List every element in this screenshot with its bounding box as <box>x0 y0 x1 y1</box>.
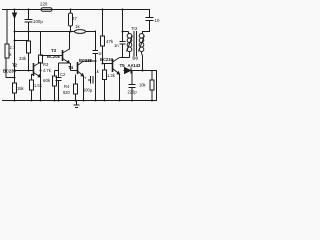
svg-text:820: 820 <box>63 90 71 95</box>
capacitor 220p <box>129 71 136 101</box>
wire antenna column <box>14 10 16 42</box>
resistor 1.5k column <box>31 74 33 100</box>
wire detector line <box>124 70 158 72</box>
svg-text:33k: 33k <box>19 56 27 61</box>
svg-text:Tr2: Tr2 <box>131 26 138 31</box>
svg-text:220p: 220p <box>128 90 138 95</box>
wire T3 emitter column + capacitor C2 <box>59 63 70 100</box>
wire primary top <box>123 32 129 35</box>
svg-text:100μ: 100μ <box>83 88 93 93</box>
wire collector to primary bottom <box>120 53 130 58</box>
wire 60k top tie <box>55 70 59 72</box>
svg-text:AA143: AA143 <box>128 63 141 68</box>
transformer winding slash left <box>127 36 133 52</box>
transistor T3 <box>62 50 64 61</box>
wire T5 collector column + capacitor 1n <box>120 10 126 59</box>
resistor 60k column <box>54 71 56 101</box>
svg-text:15k: 15k <box>17 86 25 91</box>
capacitor C5 top right <box>146 18 154 32</box>
wire secondary top <box>143 32 151 35</box>
svg-text:T5: T5 <box>120 63 126 68</box>
wire right corner down to C5 <box>149 10 151 18</box>
wire mid bus <box>14 31 95 33</box>
resistor 47k <box>101 36 105 46</box>
capacitor C4 electrolytic 100u <box>88 61 96 100</box>
svg-text:BC239: BC239 <box>3 69 16 74</box>
wire tap stub <box>15 40 30 42</box>
svg-text:220: 220 <box>40 2 48 7</box>
wire T2 collector column / R3 <box>40 32 42 101</box>
svg-text:BC234: BC234 <box>100 57 113 62</box>
wire T4 emitter column <box>83 76 85 100</box>
resistor R1 220 on rail <box>41 8 52 12</box>
junction dots <box>14 9 154 102</box>
wire T2 base <box>15 70 34 72</box>
wire right edge column <box>156 71 158 101</box>
transformer winding slash right <box>139 36 145 52</box>
wire top supply rail <box>2 9 150 11</box>
diode D1 AA143 <box>125 68 132 74</box>
wire secondary bottom column <box>142 53 143 71</box>
svg-text:4.7k: 4.7k <box>43 68 52 73</box>
svg-text:10k: 10k <box>139 83 147 88</box>
arrow on antenna wire <box>13 13 17 18</box>
svg-text:1.3k: 1.3k <box>107 73 116 78</box>
svg-text:1n: 1n <box>114 43 119 48</box>
transformer Tr2 primary winding <box>127 34 132 39</box>
wire T5 emitter column <box>119 74 121 100</box>
svg-text:47: 47 <box>72 16 77 21</box>
resistor 10k right <box>151 71 153 101</box>
svg-text:2.7: 2.7 <box>10 45 16 50</box>
resistor 15k left column <box>13 83 17 93</box>
resistor R4 820 <box>75 75 77 101</box>
resistor 1k bias <box>104 64 106 101</box>
svg-text:100μ: 100μ <box>33 19 43 24</box>
wire left resistor column <box>6 10 14 79</box>
transistor T4 <box>77 62 79 74</box>
svg-text:C2: C2 <box>60 72 66 77</box>
svg-text:1.5k: 1.5k <box>34 83 43 88</box>
svg-text:10: 10 <box>155 18 160 23</box>
wire T4 base tie <box>71 63 78 71</box>
svg-text:1k: 1k <box>75 24 80 29</box>
transistor T5 <box>112 59 114 72</box>
svg-text:T3: T3 <box>51 48 57 53</box>
resistor 33k divider <box>28 32 30 71</box>
svg-text:R4: R4 <box>64 84 70 89</box>
wire bottom ground rail <box>2 100 157 102</box>
svg-text:+: + <box>84 76 87 81</box>
resistor 1k ellipse on bus <box>75 30 86 34</box>
svg-text:60k: 60k <box>43 78 51 83</box>
transformer Tr2 core <box>134 31 137 56</box>
svg-text:D3: D3 <box>133 56 139 61</box>
labels <box>3 2 160 95</box>
svg-text:R3: R3 <box>43 62 49 67</box>
wire left bottom column <box>14 41 16 101</box>
svg-text:T4: T4 <box>68 65 74 70</box>
wire 47k column <box>102 10 104 64</box>
svg-text:T2: T2 <box>12 63 18 68</box>
ground stub <box>74 101 80 108</box>
wire T4 collector <box>84 60 96 62</box>
svg-text:BC208: BC208 <box>47 54 60 59</box>
svg-text:1n: 1n <box>98 51 103 56</box>
wire T5 base <box>103 63 113 65</box>
wire T3 base <box>41 50 63 56</box>
svg-text:BC238: BC238 <box>79 58 92 63</box>
transistor T2 <box>33 63 35 76</box>
transformer Tr2 secondary winding <box>139 34 144 39</box>
capacitor C1 100u <box>25 10 33 32</box>
svg-text:47k: 47k <box>106 39 114 44</box>
wire 1k feedback column + capacitor 1n <box>93 31 99 62</box>
wire T3 collector up to R2 <box>69 32 71 50</box>
resistor R2 47 vertical <box>70 10 72 32</box>
resistor 2.7k box <box>5 44 9 58</box>
